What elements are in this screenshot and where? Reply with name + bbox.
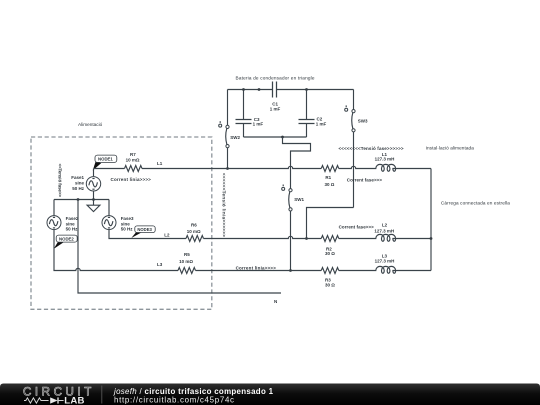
capacitor C3: [236, 117, 264, 126]
svg-text:SW2: SW2: [230, 135, 240, 140]
footer bar: [0, 384, 540, 405]
wire: star point vertical: [430, 169, 432, 271]
wire: SW3 down across line 1 to jog: [353, 132, 355, 208]
svg-text:Corrent fase>>>: Corrent fase>>>: [339, 225, 375, 230]
svg-text:SW1: SW1: [294, 197, 304, 202]
svg-text:<<Tensió fase>>: <<Tensió fase>>: [58, 164, 63, 198]
svg-text:10 mΩ: 10 mΩ: [187, 229, 201, 234]
switch SW2: [219, 121, 241, 148]
wire: SW3 jog left and down to line 2: [307, 208, 354, 239]
wire: common bus down to Fase3: [108, 200, 110, 216]
wire: common bus down to Fase2: [53, 200, 55, 216]
svg-text:Càrrega connectada en estrella: Càrrega connectada en estrella: [441, 201, 510, 206]
enclosure: Alimentacio dashed box: [31, 137, 212, 309]
wire: line 3 with hop over neutral: [54, 230, 431, 271]
svg-text:30 Ω: 30 Ω: [325, 251, 335, 256]
svg-text:NODE3: NODE3: [137, 227, 152, 232]
wire: neutral from common node to N: [78, 200, 281, 294]
source Fase1: [71, 169, 100, 192]
node: junction dot neutral branch: [77, 198, 80, 201]
switch SW1: [282, 185, 305, 211]
svg-text:L3: L3: [157, 262, 163, 267]
inductor L2 load: [374, 223, 395, 242]
svg-text:50 Hz: 50 Hz: [72, 186, 85, 191]
source Fase3: [102, 216, 134, 232]
svg-text:Fase2: Fase2: [66, 216, 79, 221]
capacitor C2: [299, 117, 327, 127]
svg-text:127.3 mH: 127.3 mH: [375, 258, 395, 263]
svg-text:<<<<<<Tensió linia>>>>>>: <<<<<<Tensió linia>>>>>>: [221, 173, 226, 237]
svg-text:Fase3: Fase3: [121, 216, 134, 221]
svg-text:Bateria de condensador en tria: Bateria de condensador en triangle: [236, 76, 315, 81]
svg-text:Corrent fase>>>: Corrent fase>>>: [347, 178, 383, 183]
switch SW3: [345, 105, 368, 131]
node: junction dot on bottom bus: [281, 136, 284, 139]
svg-text:L1: L1: [157, 161, 163, 166]
logo: resistor zigzag and diode doodle: [24, 398, 49, 403]
svg-text:R1: R1: [325, 175, 331, 180]
svg-text:30 Ω: 30 Ω: [325, 283, 335, 288]
wire: line 2: [109, 230, 431, 239]
wire: C3 branch: [243, 90, 245, 138]
source Fase2: [47, 216, 79, 232]
node: junction dot on top bus: [258, 88, 261, 91]
svg-text:1 mF: 1 mF: [270, 106, 281, 111]
wire: SW1 down to line 3: [290, 211, 292, 271]
svg-text:R7: R7: [130, 152, 136, 157]
svg-text:Corrent linia>>>>: Corrent linia>>>>: [111, 177, 152, 182]
wire: Fase1 bottom to common node: [93, 191, 95, 200]
node: junction dot on top bus at C3 branch: [242, 88, 245, 91]
ground: [87, 200, 100, 212]
label: NODE1: [93, 155, 117, 170]
svg-text:<<<<<<<<Tensió fase>>>>>>: <<<<<<<<Tensió fase>>>>>>: [339, 146, 404, 151]
node: junction dot ground branch: [92, 198, 95, 201]
footer separator: [101, 386, 103, 404]
svg-text:http://circuitlab.com/c45p74c: http://circuitlab.com/c45p74c: [114, 395, 234, 404]
resistor R6: [186, 223, 204, 242]
svg-text:LAB: LAB: [64, 395, 84, 405]
resistor R1: [321, 166, 339, 188]
resistor R5: [178, 252, 196, 273]
svg-text:SW3: SW3: [358, 118, 368, 123]
resistor R3: [321, 268, 339, 288]
wire: capacitor bank top bus left of C1: [228, 89, 273, 91]
svg-text:N: N: [274, 299, 277, 304]
capacitor C1: [270, 82, 281, 112]
wire: C2 branch: [306, 90, 308, 138]
label: NODE3: [131, 226, 155, 238]
svg-text:sine: sine: [75, 181, 85, 186]
wire: common node bus: [54, 199, 109, 201]
svg-text:NODE1: NODE1: [98, 157, 113, 162]
svg-text:1 mF: 1 mF: [316, 121, 327, 126]
wire: capacitor bank bottom bus: [244, 136, 307, 138]
node: junction dot SW1 to line 3: [289, 269, 292, 272]
svg-text:Corrent linia>>>>: Corrent linia>>>>: [236, 265, 277, 270]
svg-text:sine: sine: [66, 221, 76, 226]
inductor L1 load: [375, 152, 396, 171]
svg-text:L2: L2: [164, 233, 170, 238]
svg-text:Instal·lació alimentada: Instal·lació alimentada: [426, 146, 475, 151]
svg-text:R6: R6: [191, 223, 197, 228]
wire: bottom bus jog down to SW1: [283, 137, 311, 189]
svg-text:NODE2: NODE2: [59, 236, 74, 241]
svg-text:L2: L2: [382, 223, 388, 228]
svg-text:10 mΩ: 10 mΩ: [179, 259, 193, 264]
node: junction dot SW2 to line 1: [226, 167, 229, 170]
wire: SW3 column from top bus: [353, 90, 355, 110]
resistor R2: [321, 236, 339, 257]
inductor L3 load: [375, 254, 396, 274]
svg-text:50 Hz: 50 Hz: [66, 227, 79, 232]
wire: capacitor bank top bus right of C1: [277, 89, 354, 91]
svg-text:50 Hz: 50 Hz: [121, 227, 134, 232]
node: junction dot star point line 2: [430, 237, 433, 240]
svg-text:10 mΩ: 10 mΩ: [126, 158, 140, 163]
wire: SW2 down to line 1: [227, 148, 229, 169]
label: NODE2: [54, 235, 77, 249]
wire: line 1: [94, 166, 432, 168]
node: junction dot on top bus at C2 branch: [305, 88, 308, 91]
svg-text:R5: R5: [184, 252, 190, 257]
svg-text:127.3 mH: 127.3 mH: [374, 228, 394, 233]
svg-text:Alimentació: Alimentació: [78, 122, 103, 127]
wire: SW2 column from top bus: [227, 90, 229, 126]
svg-text:Fase1: Fase1: [71, 175, 84, 180]
svg-text:1 mF: 1 mF: [253, 121, 264, 126]
svg-text:127.3 mH: 127.3 mH: [375, 157, 395, 162]
svg-text:30 Ω: 30 Ω: [325, 182, 335, 187]
resistor R7: [125, 152, 143, 172]
node: junction dot SW3 wire to line 2: [305, 237, 308, 240]
svg-text:sine: sine: [121, 221, 131, 226]
